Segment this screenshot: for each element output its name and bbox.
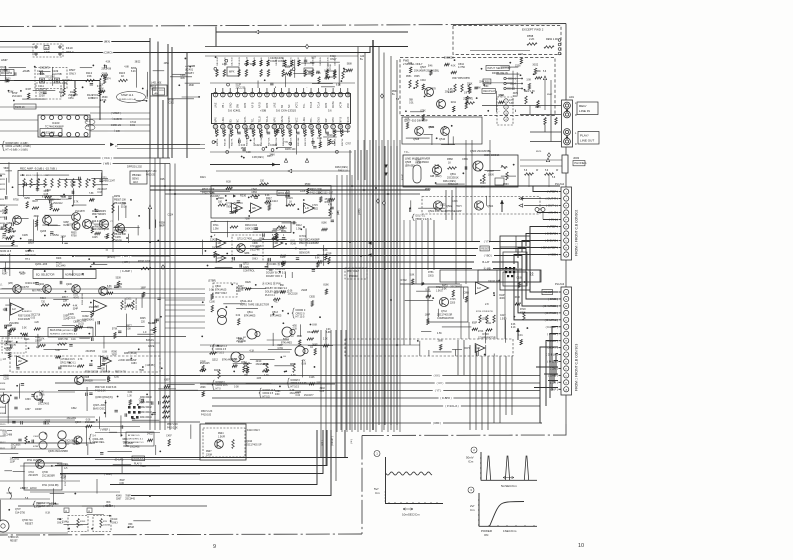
svg-text:433P: 433P: [263, 364, 269, 366]
svg-text:S14-2756: S14-2756: [15, 512, 26, 514]
svg-text:560K: 560K: [347, 63, 353, 65]
svg-text:R: R: [575, 143, 577, 146]
svg-text:308P: 308P: [7, 326, 13, 328]
svg-text:R236: R236: [240, 195, 247, 198]
svg-text:NORM 5: NORM 5: [25, 251, 35, 253]
svg-text:C710: C710: [28, 472, 34, 474]
svg-text:LINE: LINE: [222, 117, 225, 123]
svg-text:0.05: 0.05: [316, 73, 321, 75]
svg-text:O: O: [565, 292, 567, 294]
svg-text:6.3K: 6.3K: [336, 84, 341, 86]
svg-text:1/2: 1/2: [12, 307, 16, 311]
svg-text:R432 37K: R432 37K: [305, 137, 307, 146]
svg-text:REC/: REC/: [579, 104, 587, 108]
svg-text:2.8: 2.8: [485, 303, 489, 306]
svg-text:Q508: Q508: [413, 138, 420, 141]
svg-text:0.022 4M: 0.022 4M: [250, 249, 260, 251]
svg-text:R977: R977: [126, 326, 132, 328]
svg-text:MPX: MPX: [325, 102, 328, 108]
svg-text:VCT1: VCT1: [295, 101, 298, 108]
svg-text:C424 0.05: C424 0.05: [320, 57, 322, 66]
svg-text:( VREF ): ( VREF ): [100, 429, 110, 432]
svg-text:33/9: 33/9: [316, 382, 321, 384]
svg-text:( WR ): ( WR ): [122, 254, 130, 258]
svg-text:F410:TC14060BP: F410:TC14060BP: [299, 242, 319, 245]
svg-text:C611: C611: [486, 323, 492, 325]
svg-text:R506 150/26: R506 150/26: [85, 372, 99, 374]
svg-text:NORM REC 6.1 ): NORM REC 6.1 ): [60, 366, 78, 368]
svg-text:15K: 15K: [87, 74, 92, 78]
svg-text:348K: 348K: [280, 257, 286, 259]
svg-text:816K: 816K: [323, 285, 329, 287]
svg-text:MPX: MPX: [273, 117, 276, 123]
svg-text:2/25: 2/25: [257, 378, 262, 380]
svg-text:(IC401: (IC401: [185, 68, 194, 72]
svg-text:R707: R707: [28, 243, 34, 245]
svg-text:(MX): (MX): [8, 283, 13, 285]
svg-text:618K: 618K: [6, 223, 12, 225]
svg-text:1/2: 1/2: [477, 286, 481, 290]
svg-text:PLUG3: PLUG3: [555, 282, 565, 286]
svg-text:2SC2402: 2SC2402: [130, 446, 140, 448]
svg-text:Q504: Q504: [487, 205, 494, 208]
svg-text:( CX ): ( CX ): [437, 381, 444, 385]
svg-text:L401 40£: L401 40£: [151, 82, 162, 85]
svg-text:( W ): ( W ): [351, 439, 353, 444]
svg-text:5.6K: 5.6K: [509, 103, 514, 105]
svg-text:391K: 391K: [320, 388, 326, 390]
svg-text:R616: R616: [150, 86, 156, 88]
svg-text:2SC2326: 2SC2326: [123, 443, 133, 445]
svg-text:Q511~314: Q511~314: [240, 299, 253, 303]
svg-text:R904: R904: [218, 433, 224, 435]
svg-text:PB L: PB L: [222, 102, 225, 108]
svg-text:R221: R221: [0, 179, 6, 181]
svg-text:Q510: Q510: [439, 138, 446, 141]
svg-text:C565: C565: [484, 155, 490, 157]
svg-text:C142: C142: [210, 240, 216, 242]
svg-text:2.1K: 2.1K: [323, 339, 328, 341]
svg-text:C213: C213: [272, 200, 278, 203]
svg-text:Q101: Q101: [0, 65, 7, 69]
svg-text:2SC2572: 2SC2572: [40, 67, 50, 69]
svg-text:AT REC 6.5: AT REC 6.5: [128, 434, 140, 437]
svg-text:0.022: 0.022: [312, 207, 319, 210]
svg-text:128K: 128K: [8, 91, 14, 93]
svg-text:R248: R248: [290, 243, 296, 245]
svg-text:( YBO ): ( YBO ): [484, 253, 493, 257]
svg-text:SENSOR: SENSOR: [299, 251, 310, 254]
svg-text:C996: C996: [252, 243, 258, 245]
svg-text:635K: 635K: [515, 297, 521, 299]
svg-text:9.1K: 9.1K: [511, 327, 516, 329]
svg-text:TCLA: TCLA: [266, 116, 269, 123]
svg-text:22K: 22K: [63, 299, 68, 302]
svg-text:22/38: 22/38: [39, 96, 45, 98]
svg-text:M: M: [217, 311, 219, 313]
svg-text:R222: R222: [0, 184, 6, 186]
svg-text:5.8K: 5.8K: [410, 275, 415, 277]
svg-text:R548: R548: [128, 527, 134, 529]
svg-text:38/22: 38/22: [135, 62, 141, 64]
svg-text:2SC3445: 2SC3445: [125, 499, 135, 501]
svg-text:4.8K: 4.8K: [124, 67, 129, 69]
svg-text:786P: 786P: [125, 496, 131, 498]
svg-text:1.3K: 1.3K: [127, 395, 132, 397]
svg-text:-1.5dB: -1.5dB: [500, 166, 508, 169]
svg-text:0.05: 0.05: [31, 317, 36, 319]
svg-text:27/22: 27/22: [92, 95, 98, 97]
svg-text:C151: C151: [101, 178, 107, 180]
svg-text:2.7K: 2.7K: [78, 359, 83, 361]
svg-text:ONLY: ONLY: [69, 72, 76, 76]
svg-text:2SC3028: 2SC3028: [444, 58, 454, 60]
svg-text:BIAS OSC: BIAS OSC: [93, 407, 105, 410]
svg-text:C391: C391: [275, 391, 281, 393]
svg-text:809P: 809P: [5, 82, 11, 84]
svg-text:2SC1438: 2SC1438: [101, 69, 111, 71]
svg-text:R507:10K F410:5.2K: R507:10K F410:5.2K: [95, 387, 117, 389]
svg-text:( WB ): ( WB ): [103, 162, 111, 166]
svg-text:3.8K: 3.8K: [36, 503, 41, 505]
svg-text:IC701: IC701: [299, 234, 306, 238]
svg-text:FWD: FWD: [403, 59, 409, 63]
svg-text:R116: R116: [60, 475, 66, 477]
svg-text:C338: C338: [3, 376, 9, 378]
svg-text:R421 4K: R421 4K: [224, 138, 226, 146]
svg-text:523K: 523K: [73, 444, 79, 446]
svg-text:LINE: LINE: [303, 117, 306, 123]
svg-text:LINE OUT: LINE OUT: [580, 139, 594, 143]
svg-text:( RESET ): ( RESET ): [332, 436, 334, 446]
svg-text:LINE: LINE: [273, 102, 276, 108]
svg-text:HCH: HCH: [456, 205, 462, 208]
svg-text:PB507 2 & B..S: PB507 2 & B..S: [416, 219, 432, 221]
svg-text:C692: C692: [241, 362, 247, 364]
svg-text:M: M: [36, 396, 38, 399]
svg-text:C660: C660: [39, 93, 45, 95]
svg-text:LH: LH: [283, 356, 286, 358]
svg-text:1.5K/R: 1.5K/R: [218, 436, 225, 438]
svg-text:B-BIAS: B-BIAS: [146, 339, 154, 342]
svg-text:C767: C767: [345, 144, 351, 146]
svg-text:2SC1115: 2SC1115: [85, 421, 95, 424]
svg-text:R?11 1K/10R: R?11 1K/10R: [27, 460, 41, 462]
svg-text:369K: 369K: [34, 216, 40, 218]
svg-text:4/50: 4/50: [292, 326, 297, 328]
svg-text:Q312: Q312: [212, 359, 219, 362]
svg-text:0.09: 0.09: [317, 138, 322, 140]
svg-text:0.07: 0.07: [311, 58, 316, 60]
svg-text:0.039: 0.039: [44, 52, 50, 54]
svg-text:R507 4.7K: R507 4.7K: [115, 372, 126, 374]
svg-text:(MX): (MX): [104, 40, 111, 44]
svg-text:R437 5K: R437 5K: [342, 138, 344, 146]
svg-text:A SERVO: A SERVO: [22, 310, 32, 313]
svg-text:656K: 656K: [11, 329, 17, 331]
svg-text:2SC1092: 2SC1092: [65, 441, 75, 443]
svg-text:R223: R223: [0, 189, 6, 191]
svg-text:1.8: 1.8: [305, 206, 309, 210]
svg-text:2SC2573: 2SC2573: [290, 393, 300, 395]
svg-text:0.05: 0.05: [448, 89, 453, 91]
svg-text:GND: GND: [318, 117, 321, 123]
svg-text:C154: C154: [2, 210, 8, 212]
svg-text:2SC3477: 2SC3477: [304, 395, 314, 397]
svg-text:CRO2 REC 6.1: CRO2 REC 6.1: [60, 362, 76, 364]
svg-text:MPX: MPX: [244, 102, 247, 108]
svg-text:720: 720: [41, 300, 46, 303]
svg-text:C391: C391: [7, 493, 13, 495]
svg-text:3.5K: 3.5K: [89, 223, 94, 225]
svg-text:580K: 580K: [4, 168, 10, 170]
svg-text:0.06: 0.06: [288, 291, 293, 293]
svg-text:R246: R246: [63, 225, 69, 227]
svg-text:R407 R409: R407 R409: [244, 64, 256, 66]
svg-text:GND: GND: [229, 102, 232, 108]
svg-text:NF B: NF B: [251, 102, 254, 108]
svg-text:Q304: Q304: [75, 421, 82, 424]
svg-text:R25: R25: [160, 178, 165, 181]
svg-text:Q206: Q206: [66, 283, 73, 286]
svg-text:R321 102/B: R321 102/B: [136, 298, 138, 310]
svg-text:100Ω: 100Ω: [428, 275, 434, 277]
svg-text:816K: 816K: [321, 223, 327, 225]
svg-text:2SC3836: 2SC3836: [11, 444, 21, 446]
svg-text:0.03: 0.03: [241, 145, 246, 147]
svg-text:NF/O: NF/O: [259, 102, 262, 108]
svg-text:389K: 389K: [438, 340, 444, 342]
svg-text:9.4K: 9.4K: [435, 165, 440, 167]
svg-text:( AT REC 16.5: ( AT REC 16.5: [60, 358, 75, 361]
svg-text:R352: R352: [0, 407, 6, 409]
svg-text:TCLB: TCLB: [259, 116, 262, 123]
svg-text:650K: 650K: [429, 127, 435, 129]
svg-text:COMP: COMP: [270, 144, 278, 147]
svg-text:209K: 209K: [200, 387, 206, 389]
svg-text:R716 C709 R720: R716 C709 R720: [476, 311, 494, 313]
svg-text:10mSEC/Cm: 10mSEC/Cm: [402, 513, 420, 517]
svg-text:TCLA: TCLA: [318, 101, 321, 108]
svg-text:REC AMP -9.2dB ( -15.7dB ): REC AMP -9.2dB ( -15.7dB ): [20, 167, 57, 171]
svg-text:R335 76K: R335 76K: [58, 339, 69, 341]
svg-text:R421: R421: [200, 176, 206, 179]
svg-text:758K: 758K: [139, 370, 145, 372]
svg-text:Q503 2SC1815BL: Q503 2SC1815BL: [470, 149, 492, 153]
svg-text:86K: 86K: [128, 524, 133, 526]
svg-text:129K: 129K: [482, 318, 488, 320]
svg-text:7.7K: 7.7K: [283, 142, 288, 144]
svg-text:8.2K: 8.2K: [131, 71, 136, 73]
svg-text:2SC2553: 2SC2553: [89, 307, 99, 309]
svg-text:2/76: 2/76: [217, 256, 223, 260]
svg-text:R325: R325: [140, 318, 146, 320]
svg-text:C205: C205: [22, 234, 28, 237]
svg-text:R558: R558: [159, 222, 165, 224]
svg-text:HT +0.6dB ( +1.6dB ): HT +0.6dB ( +1.6dB ): [6, 148, 29, 151]
svg-text:100: 100: [218, 200, 223, 203]
svg-text:R422 7K: R422 7K: [232, 138, 234, 146]
svg-text:1000P: 1000P: [35, 340, 42, 342]
svg-text:LINE: LINE: [215, 102, 218, 108]
svg-text:514K: 514K: [498, 95, 504, 97]
svg-text:R266 220K: R266 220K: [138, 260, 151, 263]
svg-text:C343: C343: [452, 201, 458, 203]
svg-text:MPX: MPX: [215, 117, 218, 123]
svg-text:R748: R748: [168, 99, 174, 101]
svg-text:351P: 351P: [11, 447, 17, 449]
svg-text:R255: R255: [123, 446, 129, 448]
svg-text:BT4144E5: BT4144E5: [270, 314, 282, 317]
svg-text:2200: 2200: [450, 302, 456, 304]
svg-text:8.1K: 8.1K: [45, 512, 50, 514]
svg-text:R472: R472: [92, 98, 98, 100]
svg-text:334P: 334P: [73, 309, 79, 311]
svg-text:2SC2666: 2SC2666: [9, 323, 19, 325]
svg-text:1SEC/Cm: 1SEC/Cm: [503, 529, 517, 533]
svg-text:2SC2261: 2SC2261: [67, 418, 77, 420]
svg-text:2SC3716: 2SC3716: [233, 203, 243, 205]
svg-text:NC: NC: [237, 119, 240, 123]
svg-text:ONLY: ONLY: [112, 522, 119, 524]
svg-text:30/22: 30/22: [532, 64, 538, 66]
svg-text:ONLY: ONLY: [66, 50, 74, 54]
svg-text:8.7K: 8.7K: [106, 505, 111, 507]
svg-text:C210: C210: [180, 75, 186, 77]
svg-text:2SC1740S: 2SC1740S: [38, 403, 50, 405]
svg-text:11.4: 11.4: [86, 121, 91, 123]
svg-text:BT414A25: BT414A25: [215, 288, 227, 291]
svg-text:39/50: 39/50: [24, 198, 30, 200]
svg-text:VCC: VCC: [295, 117, 298, 122]
svg-text:351P: 351P: [119, 480, 125, 482]
svg-text:NF/O: NF/O: [347, 117, 350, 123]
svg-text:646P: 646P: [63, 222, 69, 224]
svg-text:45/39: 45/39: [102, 97, 108, 99]
svg-text:2SC2976: 2SC2976: [28, 475, 38, 477]
svg-text:8/10: 8/10: [65, 444, 70, 446]
svg-text:0.06: 0.06: [119, 483, 124, 485]
svg-text:44/30: 44/30: [56, 262, 62, 264]
svg-text:( VCC ): ( VCC ): [102, 156, 111, 160]
svg-text:470K: 470K: [520, 312, 526, 314]
svg-text:Q711 C1740S: Q711 C1740S: [237, 238, 252, 241]
svg-text:0.08: 0.08: [302, 363, 307, 365]
svg-text:R750: R750: [13, 200, 19, 202]
svg-text:HT 10.5: HT 10.5: [216, 351, 225, 354]
svg-text:C283: C283: [131, 363, 137, 365]
svg-text:5.6: 5.6: [328, 109, 332, 113]
svg-text:2SC1488: 2SC1488: [2, 435, 12, 437]
svg-text:31/28: 31/28: [121, 206, 127, 208]
svg-text:771P: 771P: [150, 89, 156, 91]
svg-text:MPX: MPX: [332, 117, 335, 123]
svg-text:HT 0: HT 0: [216, 387, 222, 390]
svg-text:BIAS FINE: BIAS FINE: [50, 329, 62, 332]
svg-text:FROM □ FRONT C.B CON902: FROM □ FRONT C.B CON902: [575, 210, 579, 256]
svg-text:324K: 324K: [479, 82, 485, 84]
svg-text:4.4K: 4.4K: [73, 306, 78, 308]
svg-text:C896: C896: [39, 394, 45, 396]
svg-text:4.5K: 4.5K: [106, 61, 111, 63]
svg-text:2SC1815BR: 2SC1815BR: [42, 475, 55, 477]
svg-text:C842: C842: [71, 408, 77, 410]
svg-text:805K: 805K: [131, 68, 137, 70]
svg-text:2SC1236: 2SC1236: [236, 88, 246, 90]
svg-text:0.08: 0.08: [104, 229, 109, 231]
svg-text:R653: R653: [238, 339, 244, 341]
svg-text:R507 ONLY: R507 ONLY: [347, 271, 360, 273]
svg-text:R235-6800PJ: R235-6800PJ: [92, 211, 106, 213]
svg-text:TCLB: TCLB: [310, 101, 313, 108]
svg-text:96K: 96K: [280, 285, 285, 287]
svg-text:R501: R501: [392, 91, 398, 93]
svg-text:42/10: 42/10: [256, 361, 262, 363]
svg-text:10: 10: [578, 543, 584, 549]
svg-text:108K: 108K: [62, 83, 68, 85]
svg-text:+C330 100/6: +C330 100/6: [118, 360, 132, 362]
svg-text:R90?: R90?: [206, 451, 212, 453]
svg-text:C225: C225: [92, 237, 98, 239]
svg-text:REC/PLAY: REC/PLAY: [483, 90, 496, 93]
svg-text:567K: 567K: [266, 200, 272, 202]
svg-text:C674: C674: [105, 78, 111, 80]
svg-text:C396: C396: [232, 359, 238, 361]
svg-text:688K: 688K: [122, 439, 128, 441]
svg-text:CONTROL: CONTROL: [243, 270, 255, 273]
svg-text:0.4B (REV): 0.4B (REV): [252, 157, 264, 159]
svg-text:PB L: PB L: [310, 117, 313, 123]
svg-text:4/30: 4/30: [275, 394, 280, 396]
svg-text:C553: C553: [535, 107, 541, 109]
svg-text:41/37: 41/37: [22, 488, 28, 490]
svg-text:(C313): (C313): [68, 316, 76, 319]
svg-text:5mSEC/Cm: 5mSEC/Cm: [501, 484, 517, 488]
svg-text:FROM □ FRONT C.B CON 903: FROM □ FRONT C.B CON 903: [575, 344, 579, 391]
svg-text:R420 1K: R420 1K: [217, 138, 219, 146]
svg-text:256K: 256K: [2, 213, 8, 215]
svg-text:DOL? 5.1: DOL? 5.1: [416, 216, 427, 218]
svg-text:2/2: 2/2: [18, 359, 22, 363]
svg-text:R604: R604: [281, 228, 287, 230]
svg-text:BT4144E5: BT4144E5: [244, 314, 256, 317]
svg-text:R358: R358: [0, 413, 6, 415]
svg-text:CRO2 REC 6.1: CRO2 REC 6.1: [128, 438, 144, 440]
svg-text:3/45: 3/45: [180, 78, 185, 80]
svg-text:R708: R708: [71, 235, 77, 237]
svg-text:512P: 512P: [236, 85, 242, 87]
svg-text:R328: R328: [0, 383, 6, 385]
svg-text:C305: C305: [33, 436, 39, 438]
svg-text:5.7K: 5.7K: [74, 201, 79, 203]
svg-text:29/28: 29/28: [301, 290, 307, 292]
svg-text:INPUT SELECTOR: INPUT SELECTOR: [487, 66, 510, 70]
svg-text:R56?: R56?: [547, 94, 553, 96]
svg-text:100/6: 100/6: [488, 174, 494, 176]
svg-text:2SC2447: 2SC2447: [97, 189, 107, 191]
svg-text:4.4K: 4.4K: [210, 346, 215, 348]
svg-text:47/19: 47/19: [87, 327, 93, 329]
svg-text:0.02: 0.02: [324, 71, 329, 73]
svg-text:255K: 255K: [467, 83, 473, 85]
svg-text:0.03: 0.03: [97, 192, 102, 194]
svg-text:9.5K: 9.5K: [442, 288, 447, 290]
svg-text:(MB): (MB): [338, 210, 340, 215]
svg-text:0.08: 0.08: [126, 329, 131, 331]
svg-text:911P: 911P: [513, 96, 519, 98]
svg-text:TC74HC4066BP: TC74HC4066BP: [45, 126, 64, 129]
svg-text:429P: 429P: [131, 360, 137, 362]
